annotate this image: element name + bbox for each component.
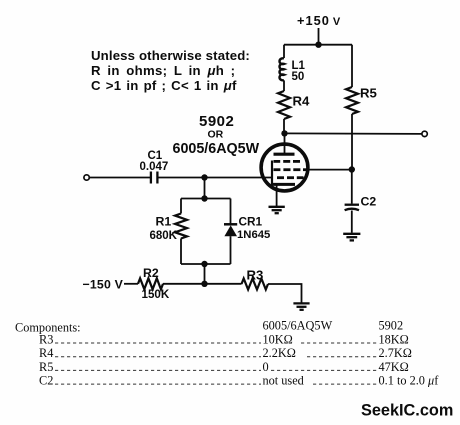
svg-text:CR1: CR1 bbox=[239, 215, 263, 229]
wire: top supply rail bbox=[284, 44, 352, 46]
svg-text:C >1 in pf ; C< 1 in μf: C >1 in pf ; C< 1 in μf bbox=[91, 78, 237, 93]
tube plate lead bbox=[284, 133, 286, 153]
wire: CR1 top lead bbox=[230, 199, 232, 225]
wire: screen grid line bbox=[308, 169, 352, 171]
wire: R5 top lead bbox=[351, 45, 353, 87]
svg-text:0: 0 bbox=[263, 360, 269, 374]
wire: R4 bottom lead bbox=[283, 119, 285, 133]
label: R1 680K bbox=[150, 215, 178, 243]
wire: input line bbox=[90, 177, 151, 179]
resistor R2 bbox=[138, 278, 163, 289]
tube cathode lead bbox=[276, 184, 278, 206]
wire: R1 top lead bbox=[180, 199, 182, 214]
node: divider top bbox=[201, 195, 207, 201]
label: CR1 1N645 bbox=[237, 215, 270, 242]
resistor R4 bbox=[278, 91, 290, 119]
svg-text:18KΩ: 18KΩ bbox=[379, 333, 409, 347]
node: bias line junction bbox=[201, 281, 207, 287]
terminal: output bbox=[422, 131, 427, 136]
wire: C2 bottom lead bbox=[351, 211, 353, 233]
wire: CR1 bottom lead bbox=[230, 236, 232, 264]
svg-text:47KΩ: 47KΩ bbox=[379, 360, 409, 374]
svg-text:0.1 to 2.0 μf: 0.1 to 2.0 μf bbox=[379, 374, 440, 388]
svg-text:R3: R3 bbox=[39, 333, 53, 347]
svg-text:−150 V: −150 V bbox=[83, 278, 124, 292]
tube V1 envelope bbox=[261, 144, 308, 191]
table leader dashes bbox=[55, 343, 377, 384]
tube grid g3 (suppressor) bbox=[274, 160, 301, 163]
inductor L1 bbox=[279, 58, 284, 80]
svg-text:Unless otherwise stated:: Unless otherwise stated: bbox=[91, 48, 250, 63]
tube cathode electrode bbox=[272, 183, 295, 186]
wire: -150V lead bbox=[124, 283, 138, 285]
svg-text:R4: R4 bbox=[293, 94, 311, 109]
wire: R1 bottom lead bbox=[180, 239, 182, 265]
wire: parallel network top rail bbox=[181, 198, 231, 200]
diode CR1 bbox=[224, 224, 237, 236]
wire: L1-R4 lead bbox=[283, 80, 285, 91]
svg-text:680K: 680K bbox=[150, 230, 178, 242]
wire: grid line C1 to tube bbox=[158, 177, 272, 179]
svg-text:50: 50 bbox=[292, 71, 305, 83]
svg-text:5902: 5902 bbox=[199, 113, 234, 130]
resistor R1 bbox=[175, 214, 187, 239]
wire: parallel network bottom rail bbox=[181, 263, 231, 265]
wire: L1 top lead bbox=[283, 45, 285, 58]
svg-text:0.047: 0.047 bbox=[140, 161, 169, 173]
svg-text:SeekIC.com: SeekIC.com bbox=[361, 402, 453, 420]
svg-text:5902: 5902 bbox=[379, 319, 404, 333]
wire: R5 bottom lead bbox=[351, 114, 353, 170]
tube g3-cathode tie bracket bbox=[271, 161, 273, 186]
svg-text:C2: C2 bbox=[361, 195, 377, 209]
svg-text:R1: R1 bbox=[156, 215, 172, 229]
node: screen junction bbox=[349, 166, 355, 172]
wire: C2 top lead bbox=[351, 170, 353, 204]
wire: R2 to junction bbox=[163, 283, 205, 285]
svg-text:R2: R2 bbox=[143, 266, 159, 280]
svg-text:R3: R3 bbox=[247, 268, 264, 283]
label: tube type 5902 OR 6005/6AQ5W bbox=[173, 113, 260, 157]
label: L1 value 50 bbox=[292, 60, 306, 83]
svg-text:not used: not used bbox=[263, 374, 304, 388]
node: divider bottom bbox=[201, 261, 207, 267]
svg-text:R in ohms; L in μh ;: R in ohms; L in μh ; bbox=[91, 63, 235, 78]
svg-text:2.2KΩ: 2.2KΩ bbox=[263, 346, 296, 360]
node: B+ junction bbox=[315, 42, 321, 48]
svg-text:R4: R4 bbox=[39, 346, 53, 360]
note: units legend text bbox=[91, 48, 250, 93]
svg-text:6005/6AQ5W: 6005/6AQ5W bbox=[173, 141, 260, 157]
node: grid junction bbox=[201, 174, 207, 180]
svg-text:6005/6AQ5W: 6005/6AQ5W bbox=[263, 319, 333, 333]
wire: divider to bias line drop bbox=[204, 264, 206, 284]
svg-text:10KΩ: 10KΩ bbox=[263, 333, 293, 347]
svg-text:2.7KΩ: 2.7KΩ bbox=[379, 346, 412, 360]
components value table bbox=[15, 319, 439, 388]
label: R2 150K bbox=[142, 266, 170, 301]
resistor R3 bbox=[242, 279, 269, 290]
svg-text:OR: OR bbox=[208, 129, 224, 141]
svg-text:150K: 150K bbox=[142, 288, 170, 301]
svg-text:R5: R5 bbox=[39, 360, 53, 374]
ground (cathode) bbox=[269, 207, 285, 213]
tube grid g2 (screen) bbox=[274, 168, 307, 171]
ground (R3) bbox=[293, 303, 309, 309]
svg-text:C2: C2 bbox=[39, 374, 53, 388]
svg-text:+150V: +150V bbox=[297, 13, 341, 28]
resistor R5 bbox=[346, 87, 358, 114]
wire: grid to divider drop bbox=[204, 178, 206, 199]
tube grid g1 (control) bbox=[277, 176, 304, 179]
node: plate junction bbox=[281, 130, 287, 136]
ground (C2) bbox=[343, 234, 360, 241]
terminal: input bbox=[84, 175, 89, 180]
wire: junction to R3 bbox=[205, 283, 242, 285]
wire: output line bbox=[285, 132, 422, 135]
tube plate electrode bbox=[274, 153, 295, 156]
svg-text:1N645: 1N645 bbox=[237, 229, 270, 241]
label: C1 value 0.047 bbox=[140, 150, 169, 173]
wire: R3 to ground bbox=[268, 284, 302, 303]
svg-text:R5: R5 bbox=[360, 86, 377, 101]
capacitor C2 bbox=[345, 205, 359, 211]
capacitor C1 bbox=[151, 172, 158, 184]
wire: +150V stub bbox=[318, 28, 320, 45]
